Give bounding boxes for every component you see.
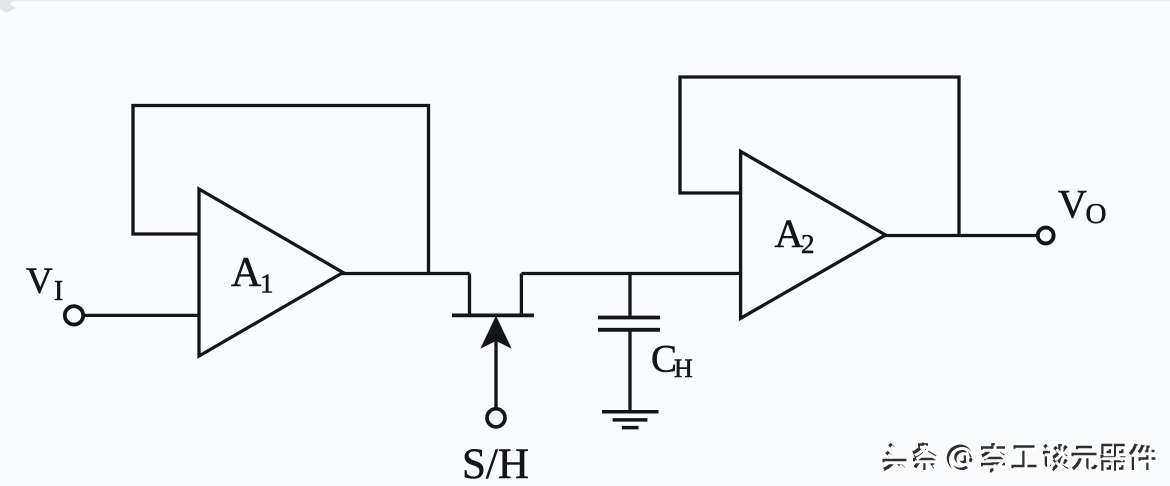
node S/H terminal xyxy=(487,409,505,427)
svg-text:S/H: S/H xyxy=(462,441,529,486)
wire switch to A2 input xyxy=(521,272,740,275)
wire A1 feedback loop xyxy=(133,106,429,274)
wire A1 output to switch xyxy=(341,272,470,275)
capacitor C_H top plate xyxy=(598,316,660,320)
transistor switch channel bar xyxy=(452,313,534,317)
svg-text:2: 2 xyxy=(801,229,815,259)
op-amp A2 xyxy=(741,151,886,318)
svg-text:I: I xyxy=(54,276,63,307)
node V_O terminal xyxy=(1038,228,1054,244)
ground xyxy=(602,412,659,428)
wire S/H gate shaft xyxy=(494,340,497,408)
svg-text:A: A xyxy=(231,250,262,296)
capacitor C_H bottom plate xyxy=(598,328,660,332)
wire V_I input xyxy=(83,314,199,317)
wire capacitor stem top xyxy=(628,274,631,316)
transistor switch right terminal xyxy=(520,274,523,314)
node V_I terminal xyxy=(65,306,83,324)
wire A2 output xyxy=(883,234,1037,237)
svg-text:O: O xyxy=(1086,198,1107,230)
op-amp A1 xyxy=(199,189,343,356)
transistor switch left terminal xyxy=(468,274,471,314)
svg-text:V: V xyxy=(26,261,53,302)
wire capacitor stem bottom xyxy=(628,331,631,410)
svg-text:V: V xyxy=(1058,182,1087,227)
transistor gate arrowhead xyxy=(482,318,510,348)
svg-text:A: A xyxy=(775,211,804,256)
svg-text:H: H xyxy=(674,354,693,383)
wire A2 feedback loop xyxy=(680,77,959,236)
watermark dark strokes xyxy=(883,443,1156,471)
svg-text:1: 1 xyxy=(260,269,274,299)
watermark white emboss overlay xyxy=(885,445,1158,473)
